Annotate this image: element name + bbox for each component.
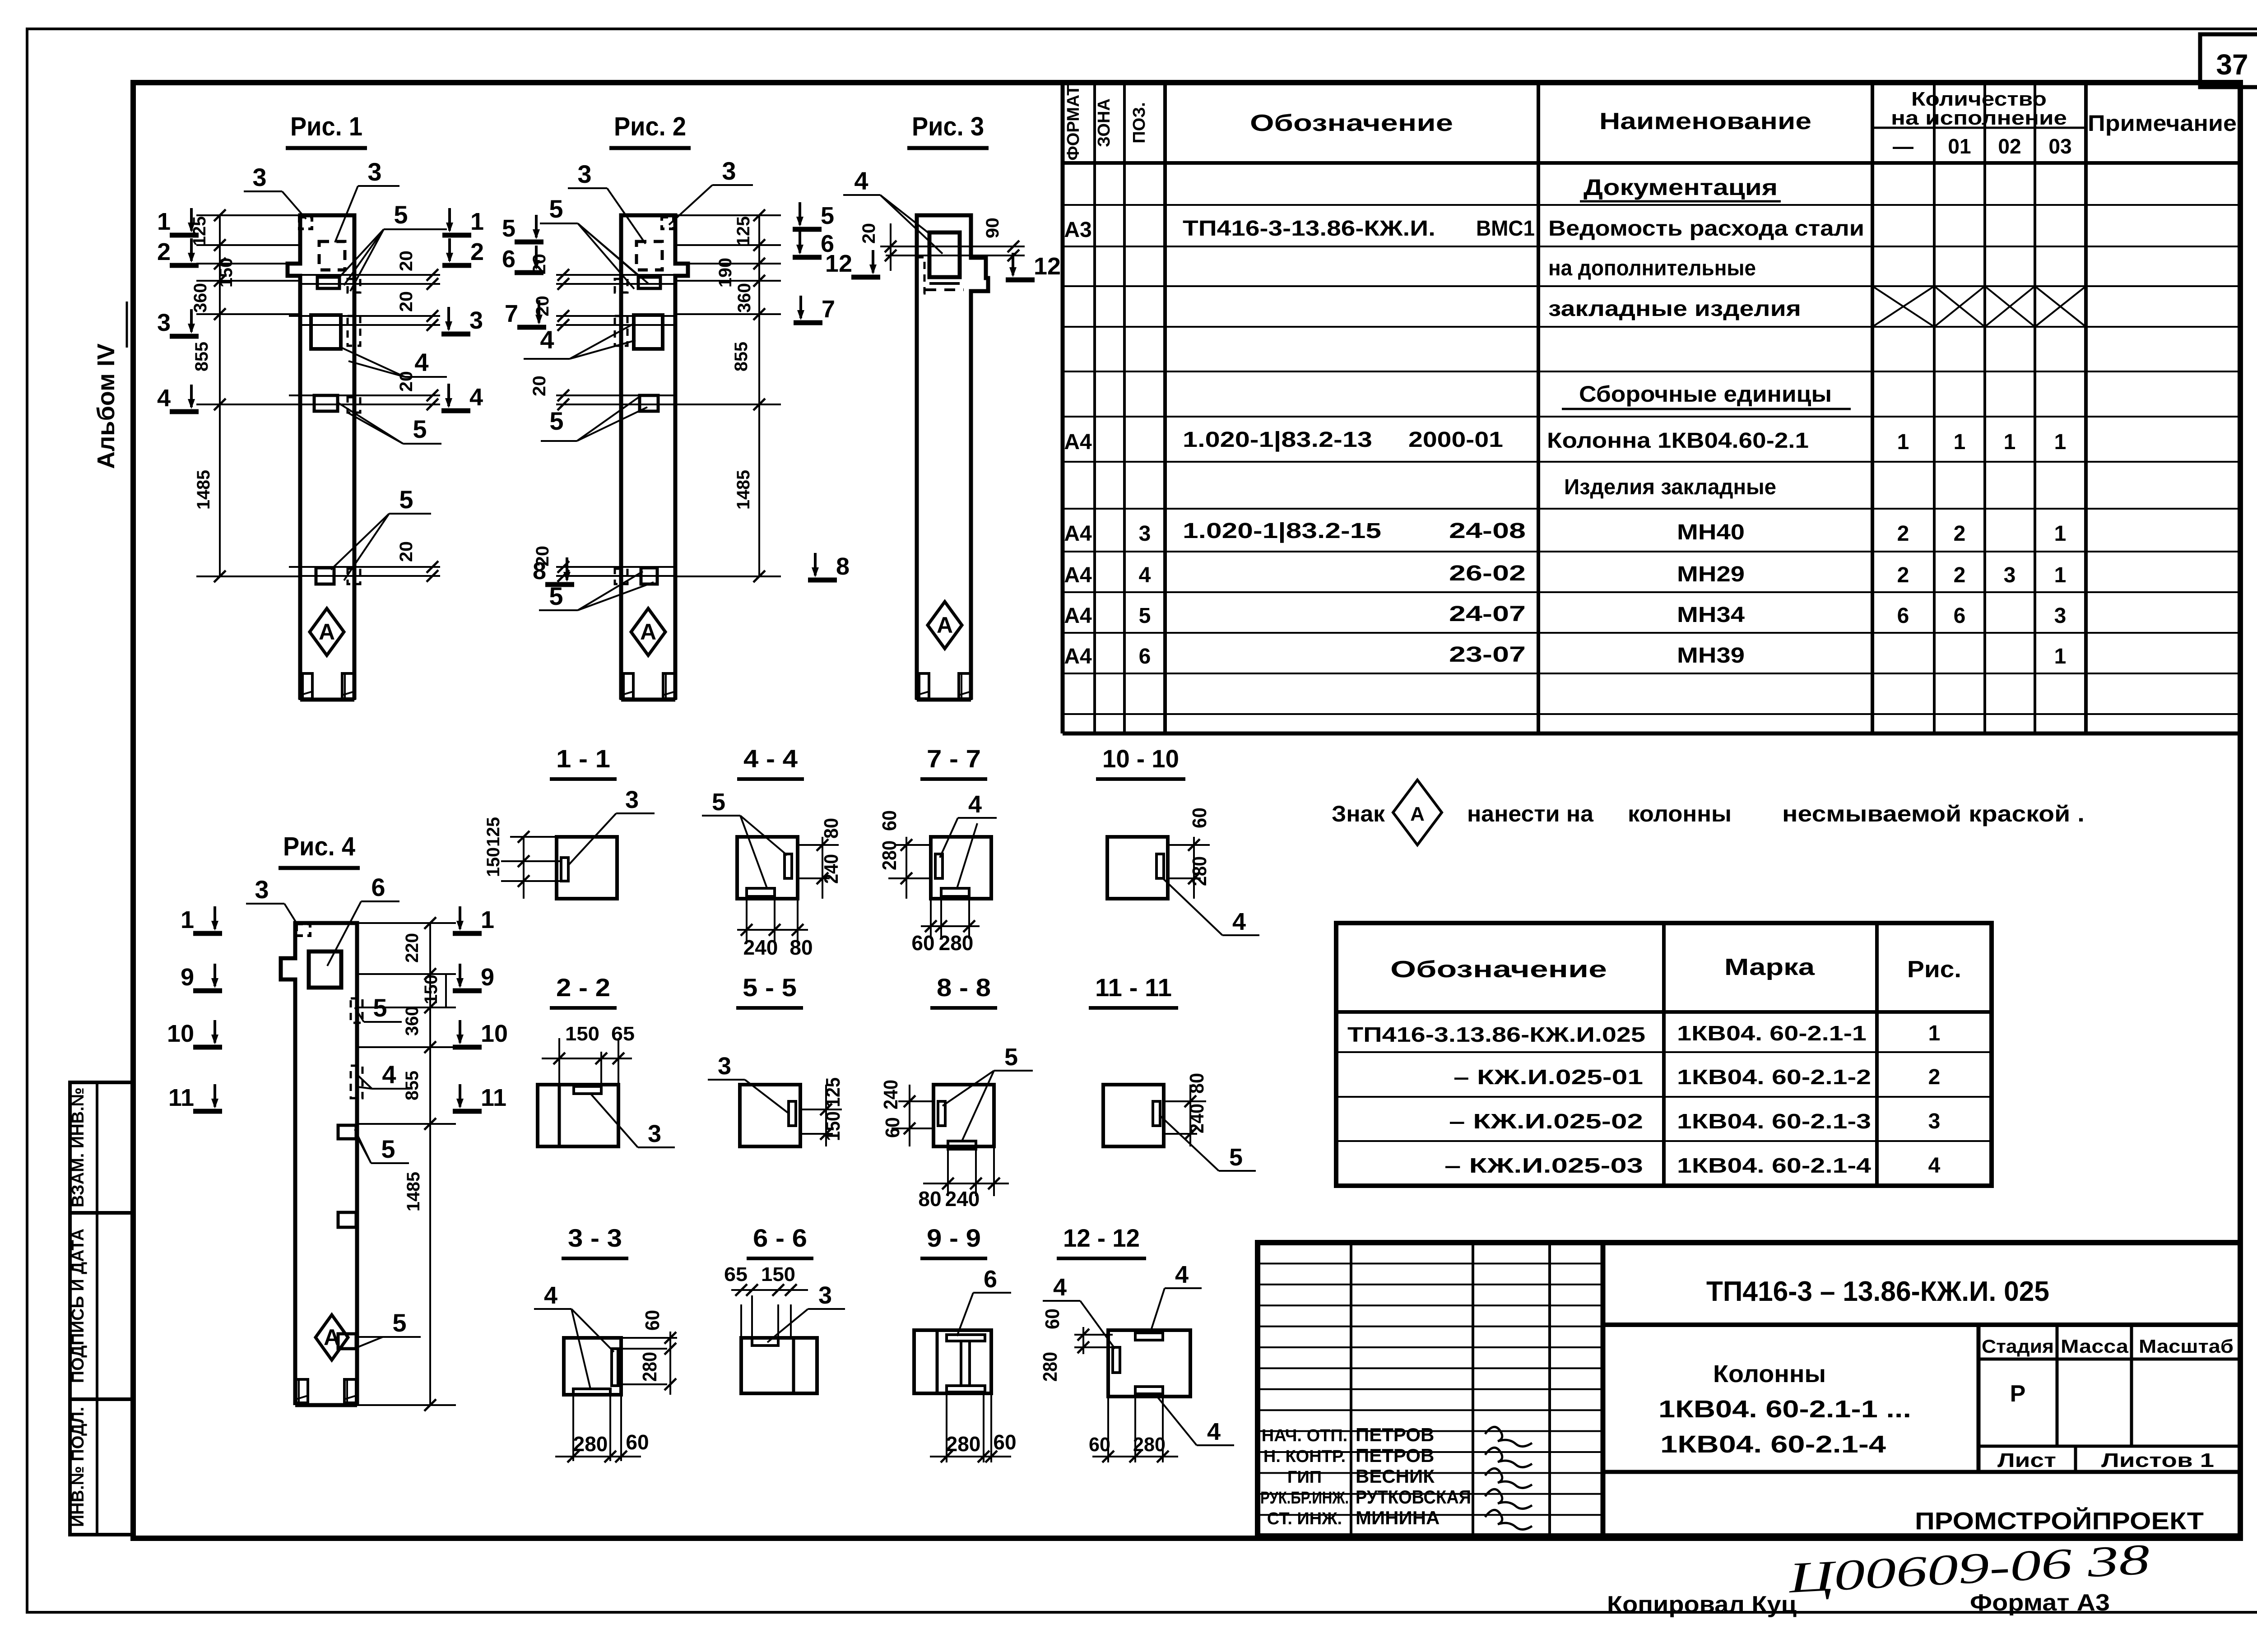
svg-text:Ведомость расхода стали: Ведомость расхода стали	[1548, 217, 1864, 241]
svg-text:150: 150	[565, 1023, 599, 1045]
svg-text:3: 3	[577, 160, 591, 188]
svg-text:60: 60	[1041, 1309, 1063, 1329]
svg-text:5: 5	[549, 582, 563, 610]
svg-text:1КВ04. 60-2.1-4: 1КВ04. 60-2.1-4	[1677, 1154, 1872, 1177]
svg-text:3: 3	[625, 786, 639, 813]
svg-text:220: 220	[402, 933, 422, 963]
svg-text:ТП416-3 – 13.86-КЖ.И. 025: ТП416-3 – 13.86-КЖ.И. 025	[1706, 1276, 2049, 1307]
svg-text:5: 5	[1229, 1144, 1243, 1171]
svg-text:Рис. 3: Рис. 3	[912, 112, 984, 141]
svg-text:2000-01: 2000-01	[1408, 428, 1503, 452]
svg-text:ИНВ.№ ПОДЛ.: ИНВ.№ ПОДЛ.	[69, 1407, 88, 1527]
svg-text:60: 60	[878, 810, 901, 831]
svg-text:—: —	[1893, 135, 1913, 158]
svg-text:Р: Р	[2010, 1381, 2026, 1407]
svg-text:1.020-1|83.2-13: 1.020-1|83.2-13	[1183, 428, 1372, 452]
svg-text:80: 80	[789, 936, 813, 959]
svg-text:60: 60	[1189, 807, 1211, 828]
svg-text:МН39: МН39	[1677, 644, 1745, 668]
svg-text:5 - 5: 5 - 5	[743, 973, 797, 1002]
svg-text:280: 280	[573, 1432, 608, 1456]
svg-text:2: 2	[1897, 522, 1909, 546]
svg-text:03: 03	[2048, 135, 2071, 158]
svg-text:Документация: Документация	[1584, 175, 1778, 200]
svg-text:А4: А4	[1064, 522, 1092, 546]
svg-text:Рис. 4: Рис. 4	[283, 832, 355, 861]
svg-text:ТП416-3-13.86-КЖ.И.: ТП416-3-13.86-КЖ.И.	[1183, 217, 1435, 241]
svg-text:150: 150	[483, 847, 503, 877]
svg-text:1 - 1: 1 - 1	[556, 744, 610, 773]
svg-text:1: 1	[157, 208, 171, 235]
svg-text:А: А	[319, 619, 335, 645]
svg-text:А4: А4	[1064, 563, 1092, 587]
svg-text:4: 4	[1175, 1261, 1189, 1288]
svg-text:9: 9	[181, 964, 194, 991]
svg-text:ВЗАМ. ИНВ.№: ВЗАМ. ИНВ.№	[69, 1087, 88, 1207]
svg-text:7 - 7: 7 - 7	[927, 744, 981, 773]
svg-text:Наименование: Наименование	[1599, 108, 1811, 135]
svg-text:3 - 3: 3 - 3	[568, 1224, 622, 1252]
svg-text:1: 1	[181, 906, 194, 933]
svg-text:3: 3	[1928, 1109, 1941, 1133]
svg-text:А4: А4	[1064, 645, 1092, 668]
svg-text:1485: 1485	[404, 1172, 423, 1211]
svg-text:150: 150	[822, 1111, 844, 1141]
svg-text:4: 4	[1928, 1154, 1941, 1178]
svg-text:26-02: 26-02	[1449, 561, 1526, 585]
svg-text:12: 12	[825, 250, 852, 277]
svg-text:1: 1	[1954, 430, 1966, 454]
svg-text:280: 280	[946, 1432, 981, 1456]
svg-text:80: 80	[918, 1187, 941, 1211]
svg-text:20: 20	[396, 541, 416, 562]
svg-text:РУК.БР.ИНЖ.: РУК.БР.ИНЖ.	[1260, 1489, 1349, 1508]
svg-text:9 - 9: 9 - 9	[927, 1224, 981, 1252]
svg-text:60: 60	[882, 1117, 904, 1138]
svg-text:4: 4	[1053, 1274, 1067, 1301]
svg-text:60: 60	[911, 931, 934, 955]
svg-text:А4: А4	[1064, 604, 1092, 628]
svg-text:3: 3	[1139, 522, 1151, 546]
svg-text:1: 1	[1928, 1021, 1941, 1045]
svg-text:80: 80	[1186, 1073, 1208, 1094]
svg-text:240: 240	[820, 854, 842, 884]
svg-text:1КВ04. 60-2.1-3: 1КВ04. 60-2.1-3	[1677, 1109, 1871, 1133]
svg-text:150: 150	[761, 1263, 795, 1285]
svg-text:3: 3	[2054, 604, 2067, 628]
svg-text:11: 11	[168, 1084, 194, 1111]
svg-text:7: 7	[505, 300, 518, 327]
svg-text:несмываемой краской .: несмываемой краской .	[1782, 801, 2085, 826]
svg-text:11: 11	[481, 1084, 506, 1111]
svg-text:1КВ04. 60-2.1-1 ...: 1КВ04. 60-2.1-1 ...	[1658, 1396, 1911, 1423]
svg-text:2: 2	[1897, 563, 1909, 587]
svg-text:5: 5	[821, 202, 834, 229]
svg-text:Колонны: Колонны	[1713, 1360, 1826, 1387]
svg-text:Масштаб: Масштаб	[2139, 1336, 2234, 1357]
svg-text:4: 4	[469, 384, 483, 411]
svg-text:1: 1	[2004, 430, 2016, 454]
svg-text:1: 1	[470, 208, 484, 235]
svg-text:Лист: Лист	[1997, 1449, 2056, 1471]
svg-text:2 - 2: 2 - 2	[556, 973, 610, 1002]
svg-text:Сборочные единицы: Сборочные единицы	[1579, 381, 1832, 407]
svg-text:1: 1	[2054, 522, 2067, 546]
svg-text:4: 4	[1232, 908, 1246, 935]
svg-text:Н. КОНТР.: Н. КОНТР.	[1263, 1447, 1346, 1466]
svg-text:1КВ04. 60-2.1-2: 1КВ04. 60-2.1-2	[1677, 1065, 1871, 1089]
svg-text:6: 6	[984, 1266, 997, 1293]
svg-text:Обозначение: Обозначение	[1390, 956, 1607, 983]
svg-text:150: 150	[421, 974, 441, 1004]
svg-text:12: 12	[1034, 253, 1061, 280]
svg-text:3: 3	[367, 158, 381, 186]
svg-text:7: 7	[822, 296, 835, 323]
svg-text:60: 60	[993, 1430, 1016, 1454]
svg-text:280: 280	[1039, 1352, 1061, 1382]
svg-text:МИНИНА: МИНИНА	[1356, 1507, 1440, 1528]
svg-text:80: 80	[820, 818, 842, 839]
svg-text:6: 6	[502, 246, 515, 273]
svg-text:А4: А4	[1064, 430, 1092, 454]
svg-text:855: 855	[192, 342, 212, 371]
svg-text:5: 5	[399, 485, 413, 514]
svg-text:9: 9	[481, 964, 494, 991]
svg-text:ВМС1: ВМС1	[1476, 217, 1535, 241]
svg-text:Изделия закладные: Изделия закладные	[1564, 475, 1776, 499]
svg-text:2: 2	[1954, 563, 1966, 587]
svg-text:11 - 11: 11 - 11	[1095, 973, 1172, 1002]
svg-text:на дополнительные: на дополнительные	[1548, 256, 1756, 280]
svg-text:РУТКОВСКАЯ: РУТКОВСКАЯ	[1356, 1486, 1471, 1508]
svg-text:закладные изделия: закладные изделия	[1548, 297, 1801, 321]
svg-text:3: 3	[252, 163, 266, 191]
svg-text:3: 3	[157, 309, 171, 336]
svg-text:ЗОНА: ЗОНА	[1095, 98, 1114, 147]
svg-text:5: 5	[549, 195, 563, 223]
svg-text:МН29: МН29	[1677, 562, 1745, 586]
svg-text:1: 1	[481, 906, 494, 933]
svg-text:СТ. ИНЖ.: СТ. ИНЖ.	[1267, 1509, 1342, 1528]
svg-text:1.020-1|83.2-15: 1.020-1|83.2-15	[1183, 519, 1381, 543]
svg-text:4: 4	[382, 1060, 396, 1089]
svg-text:3: 3	[722, 157, 736, 185]
svg-text:60: 60	[626, 1430, 649, 1454]
svg-text:А: А	[937, 613, 953, 638]
svg-text:МН34: МН34	[1677, 603, 1745, 627]
svg-text:2: 2	[1954, 522, 1966, 546]
svg-text:ГИП: ГИП	[1287, 1468, 1322, 1487]
svg-text:240: 240	[945, 1187, 980, 1211]
svg-text:125: 125	[822, 1077, 844, 1107]
svg-text:855: 855	[731, 342, 751, 371]
svg-text:01: 01	[1948, 135, 1971, 158]
svg-text:1: 1	[1897, 430, 1909, 454]
svg-text:4: 4	[1139, 563, 1151, 587]
svg-text:ПОДПИСЬ И ДАТА: ПОДПИСЬ И ДАТА	[69, 1229, 88, 1383]
svg-text:2: 2	[1928, 1065, 1941, 1089]
svg-text:280: 280	[939, 931, 974, 955]
svg-text:5: 5	[549, 407, 563, 435]
svg-text:А: А	[1410, 803, 1425, 825]
svg-text:4: 4	[544, 1282, 557, 1309]
svg-text:360: 360	[190, 283, 210, 313]
svg-text:65: 65	[611, 1023, 635, 1045]
svg-text:150: 150	[216, 258, 236, 288]
svg-text:240: 240	[743, 936, 778, 959]
svg-text:8: 8	[533, 557, 546, 585]
svg-text:60: 60	[641, 1310, 664, 1331]
svg-text:6: 6	[371, 873, 385, 901]
svg-text:4: 4	[540, 325, 554, 354]
svg-text:6 - 6: 6 - 6	[753, 1224, 807, 1252]
svg-text:ТП416-3.13.86-КЖ.И.025: ТП416-3.13.86-КЖ.И.025	[1347, 1023, 1645, 1046]
svg-text:ПЕТРОВ: ПЕТРОВ	[1356, 1445, 1434, 1466]
svg-text:5: 5	[413, 415, 427, 443]
svg-text:– КЖ.И.025-01: – КЖ.И.025-01	[1454, 1065, 1643, 1089]
svg-text:А: А	[640, 619, 656, 645]
svg-text:А3: А3	[1064, 218, 1091, 242]
svg-text:5: 5	[373, 993, 387, 1022]
svg-text:3: 3	[718, 1053, 731, 1080]
svg-text:5: 5	[712, 789, 725, 816]
svg-text:ФОРМАТ: ФОРМАТ	[1064, 85, 1083, 160]
svg-text:– КЖ.И.025-02: – КЖ.И.025-02	[1449, 1109, 1643, 1133]
svg-text:5: 5	[1004, 1044, 1018, 1071]
svg-text:8: 8	[836, 553, 850, 580]
svg-text:Стадия: Стадия	[1982, 1336, 2054, 1357]
svg-text:240: 240	[1186, 1104, 1208, 1133]
svg-text:НАЧ. ОТП.: НАЧ. ОТП.	[1262, 1426, 1347, 1445]
svg-text:ВЕСНИК: ВЕСНИК	[1356, 1466, 1435, 1487]
svg-text:Рис. 1: Рис. 1	[290, 112, 362, 141]
svg-text:90: 90	[983, 218, 1003, 238]
svg-text:125: 125	[734, 216, 753, 246]
svg-text:24-08: 24-08	[1449, 519, 1526, 543]
svg-text:6: 6	[1897, 604, 1909, 628]
svg-text:1КВ04. 60-2.1-1: 1КВ04. 60-2.1-1	[1677, 1021, 1867, 1045]
svg-text:125: 125	[483, 817, 503, 847]
svg-text:1: 1	[2054, 645, 2067, 668]
svg-text:6: 6	[1954, 604, 1966, 628]
svg-text:3: 3	[469, 307, 483, 334]
svg-text:23-07: 23-07	[1449, 643, 1526, 667]
svg-text:А: А	[324, 1325, 340, 1350]
svg-text:10 - 10: 10 - 10	[1102, 744, 1179, 773]
svg-text:Масса: Масса	[2061, 1336, 2129, 1357]
svg-text:Примечание: Примечание	[2088, 111, 2237, 136]
svg-text:240: 240	[880, 1080, 902, 1109]
svg-text:нанести на: нанести на	[1467, 801, 1594, 826]
svg-text:Колонна 1КВ04.60-2.1: Колонна 1КВ04.60-2.1	[1547, 429, 1809, 453]
svg-text:3: 3	[648, 1120, 661, 1147]
svg-text:5: 5	[381, 1135, 395, 1163]
svg-text:10: 10	[481, 1020, 508, 1047]
svg-text:60: 60	[1089, 1434, 1110, 1456]
svg-text:Знак: Знак	[1332, 801, 1385, 826]
svg-text:– КЖ.И.025-03: – КЖ.И.025-03	[1444, 1154, 1643, 1177]
svg-text:20: 20	[396, 251, 416, 271]
svg-text:5: 5	[1139, 604, 1151, 628]
svg-text:4: 4	[1207, 1418, 1221, 1445]
svg-text:4: 4	[157, 385, 171, 412]
svg-text:1485: 1485	[734, 470, 753, 510]
svg-text:37: 37	[2216, 48, 2248, 81]
svg-text:3: 3	[818, 1282, 832, 1309]
svg-text:12 - 12: 12 - 12	[1063, 1224, 1140, 1252]
svg-text:2: 2	[157, 238, 171, 265]
svg-text:190: 190	[715, 258, 735, 288]
svg-text:колонны: колонны	[1628, 801, 1732, 826]
svg-text:5: 5	[394, 200, 408, 229]
svg-text:65: 65	[724, 1263, 748, 1285]
svg-text:1485: 1485	[194, 470, 214, 510]
svg-text:280: 280	[878, 840, 901, 870]
svg-text:Рис.: Рис.	[1907, 956, 1961, 983]
svg-text:20: 20	[859, 223, 879, 244]
svg-text:280: 280	[1189, 856, 1211, 886]
svg-text:5: 5	[502, 215, 515, 242]
svg-text:на исполнение: на исполнение	[1891, 107, 2067, 129]
svg-text:280: 280	[1133, 1434, 1166, 1456]
svg-text:6: 6	[1139, 645, 1151, 668]
svg-text:ПРОМСТРОЙПРОЕКТ: ПРОМСТРОЙПРОЕКТ	[1915, 1507, 2204, 1535]
svg-text:20: 20	[396, 291, 416, 312]
svg-text:4: 4	[854, 167, 868, 195]
svg-text:20: 20	[533, 296, 553, 316]
svg-text:Альбом IV: Альбом IV	[93, 343, 120, 469]
svg-text:3: 3	[255, 875, 269, 904]
svg-text:4 - 4: 4 - 4	[743, 744, 798, 773]
svg-text:Марка: Марка	[1724, 954, 1815, 980]
svg-text:20: 20	[529, 376, 549, 396]
svg-text:Листов 1: Листов 1	[2101, 1449, 2214, 1471]
svg-text:02: 02	[1998, 135, 2021, 158]
svg-text:4: 4	[414, 348, 428, 376]
svg-text:2: 2	[470, 238, 484, 265]
svg-text:Обозначение: Обозначение	[1250, 110, 1453, 136]
svg-text:4: 4	[968, 791, 982, 818]
svg-text:855: 855	[402, 1071, 422, 1100]
svg-text:1: 1	[2054, 563, 2067, 587]
svg-text:1: 1	[2054, 430, 2067, 454]
svg-text:280: 280	[639, 1352, 661, 1382]
svg-text:8 - 8: 8 - 8	[937, 973, 991, 1002]
svg-text:Рис. 2: Рис. 2	[614, 112, 686, 141]
svg-text:360: 360	[734, 283, 754, 313]
svg-text:5: 5	[392, 1309, 406, 1337]
svg-text:Формат А3: Формат А3	[1970, 1590, 2110, 1616]
svg-text:ПЕТРОВ: ПЕТРОВ	[1356, 1424, 1434, 1445]
svg-text:Копировал Куц: Копировал Куц	[1607, 1592, 1797, 1618]
svg-text:10: 10	[167, 1020, 194, 1047]
svg-text:360: 360	[402, 1006, 422, 1036]
svg-text:24-07: 24-07	[1449, 602, 1526, 626]
svg-text:МН40: МН40	[1677, 520, 1745, 544]
svg-text:ПОЗ.: ПОЗ.	[1130, 102, 1149, 143]
svg-text:1КВ04. 60-2.1-4: 1КВ04. 60-2.1-4	[1660, 1431, 1886, 1458]
svg-text:3: 3	[2004, 563, 2016, 587]
